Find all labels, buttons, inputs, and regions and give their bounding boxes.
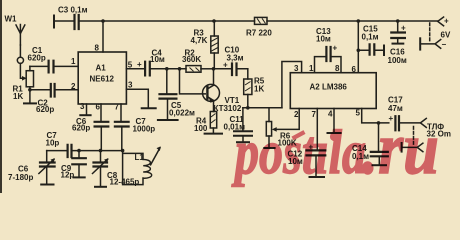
svg-text:1K: 1K	[254, 85, 264, 94]
svg-text:100: 100	[194, 124, 208, 133]
svg-text:.ru: .ru	[362, 108, 439, 190]
svg-text:3: 3	[80, 102, 85, 111]
svg-text:5: 5	[128, 61, 133, 70]
svg-text:1000p: 1000p	[133, 125, 156, 134]
svg-text:2: 2	[294, 110, 299, 119]
svg-text:620p: 620p	[28, 54, 46, 63]
svg-text:620p: 620p	[72, 124, 90, 133]
svg-text:+: +	[137, 60, 142, 69]
svg-text:L1: L1	[135, 153, 145, 162]
svg-text:2: 2	[71, 82, 76, 91]
svg-text:W1: W1	[5, 15, 18, 24]
svg-text:4,7K: 4,7K	[191, 36, 208, 45]
svg-text:4: 4	[328, 110, 333, 119]
svg-text:+: +	[401, 24, 406, 33]
svg-text:+: +	[333, 44, 338, 53]
svg-text:8: 8	[95, 44, 100, 53]
svg-text:3,3м: 3,3м	[227, 54, 244, 63]
svg-text:1: 1	[71, 57, 76, 66]
svg-text:12p: 12p	[61, 171, 75, 180]
svg-text:3: 3	[294, 64, 299, 73]
svg-text:0,022м: 0,022м	[169, 109, 195, 118]
svg-text:R7 220: R7 220	[246, 29, 272, 38]
svg-text:A2 LM386: A2 LM386	[310, 83, 348, 92]
svg-text:5: 5	[356, 109, 361, 118]
svg-text:10p: 10p	[46, 139, 60, 148]
svg-text:8: 8	[335, 64, 340, 73]
svg-text:620p: 620p	[36, 105, 54, 114]
svg-text:A1: A1	[96, 64, 107, 73]
svg-text:0,1м: 0,1м	[362, 33, 379, 42]
svg-text:postıla: postıla	[231, 119, 366, 187]
svg-text:100м: 100м	[388, 56, 407, 65]
svg-text:6: 6	[96, 103, 101, 112]
svg-text:3: 3	[128, 81, 133, 90]
svg-text:12-465p: 12-465p	[110, 178, 140, 187]
svg-text:10м: 10м	[316, 35, 331, 44]
svg-text:+: +	[223, 61, 228, 70]
svg-text:+: +	[444, 17, 449, 26]
svg-text:−: −	[442, 40, 447, 49]
svg-text:1: 1	[309, 64, 314, 73]
svg-text:360K: 360K	[182, 55, 201, 64]
svg-text:6: 6	[352, 65, 357, 74]
svg-text:7: 7	[115, 103, 120, 112]
svg-text:КТ3102: КТ3102	[214, 104, 242, 113]
svg-text:7: 7	[312, 110, 317, 119]
svg-text:NE612: NE612	[90, 75, 115, 84]
svg-text:C3 0,1м: C3 0,1м	[58, 6, 88, 15]
svg-text:10м: 10м	[150, 55, 165, 64]
svg-text:7-180p: 7-180p	[8, 173, 33, 182]
svg-text:1K: 1K	[13, 92, 23, 101]
svg-text:6V: 6V	[441, 31, 451, 40]
